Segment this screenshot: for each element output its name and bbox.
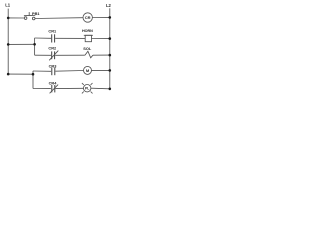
wire rung2 middle segment	[55, 37, 85, 39]
motor M	[84, 66, 92, 74]
wire rung2 right segment	[92, 38, 110, 40]
svg-text:PL: PL	[85, 87, 89, 91]
svg-text:CR4: CR4	[49, 81, 58, 86]
contact CR4 (normally closed)	[49, 81, 59, 94]
wire rung3 middle segment	[55, 54, 85, 56]
svg-text:HORN: HORN	[82, 29, 93, 33]
wire rung5 left segment	[33, 88, 51, 90]
node junction dot rung4 right rail	[109, 69, 112, 72]
solenoid SOL	[83, 46, 93, 58]
wire rung4 middle segment	[55, 70, 83, 73]
wire rung5 right segment	[91, 87, 110, 90]
horn HORN	[82, 29, 93, 42]
node junction dot rung2 right rail	[109, 37, 112, 40]
node junction dot rung3 right rail	[109, 54, 112, 57]
wire right rail L2	[109, 8, 111, 90]
wire left rail L1	[7, 9, 9, 75]
node junction dot rung1 left rail	[7, 17, 10, 20]
wire feed B horizontal	[8, 73, 33, 75]
pushbutton PB1	[24, 11, 41, 20]
wire rung1 middle segment	[35, 17, 83, 20]
svg-text:CR3: CR3	[49, 64, 58, 69]
node junction dot feed A branch	[33, 43, 36, 46]
contact CR1 (normally open)	[48, 28, 57, 42]
node junction dot feed B branch	[32, 73, 35, 76]
wire rung3 right segment	[93, 54, 110, 56]
svg-text:SOL: SOL	[83, 46, 92, 51]
svg-text:CR2: CR2	[48, 45, 57, 50]
node junction dot rung5 right rail	[109, 88, 112, 91]
contact CR3 (normally open)	[49, 64, 58, 76]
wire rung4 right segment	[92, 69, 110, 71]
node junction dot feed A rail	[7, 43, 10, 46]
wire rung1 right segment	[92, 16, 109, 18]
svg-text:M: M	[86, 68, 90, 73]
wire rung3 left segment	[35, 54, 52, 56]
svg-text:CR1: CR1	[48, 28, 57, 33]
node junction dot feed B rail	[7, 73, 10, 76]
wire rung5 middle segment	[55, 87, 83, 89]
svg-text:L1: L1	[5, 3, 11, 8]
wire feed A horizontal	[8, 43, 34, 45]
contact CR2 (normally closed)	[48, 45, 58, 60]
coil CR	[83, 13, 92, 22]
pilot light PL	[82, 83, 93, 93]
wire feed B branch vertical	[32, 71, 34, 89]
node junction dot rung1 right rail	[109, 16, 112, 19]
svg-text:CR: CR	[85, 15, 91, 20]
svg-text:PB1: PB1	[32, 11, 40, 16]
wire rung2 left segment	[35, 37, 52, 39]
svg-text:L2: L2	[106, 3, 112, 8]
wire rung1 left segment	[8, 17, 24, 19]
wire feed A branch vertical	[34, 38, 36, 55]
wire rung4 left segment	[33, 70, 51, 72]
